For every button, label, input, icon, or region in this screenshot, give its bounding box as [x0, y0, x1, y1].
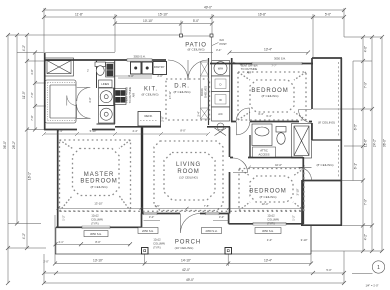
svg-text:3'-4": 3'-4" [196, 111, 200, 116]
wall bath block bottom [44, 129, 115, 131]
bookshelves column [201, 62, 209, 119]
front door arc [181, 214, 201, 234]
svg-text:3'-0": 3'-0" [88, 97, 92, 102]
svg-text:(8' CEILING): (8' CEILING) [173, 90, 190, 94]
svg-text:13'-10": 13'-10" [93, 259, 103, 263]
window master bottom 3050 [82, 226, 110, 229]
wall strip bottom [302, 180, 341, 182]
svg-text:VENT HOOD: VENT HOOD [125, 87, 129, 103]
svg-text:BOOK: BOOK [200, 88, 204, 96]
svg-text:6'-5": 6'-5" [354, 124, 358, 130]
svg-text:4'-2": 4'-2" [22, 233, 26, 239]
svg-text:4'-2": 4'-2" [364, 234, 368, 240]
svg-text:6x6: 6x6 [220, 38, 225, 42]
refrigerator [138, 112, 161, 127]
wall bath middle left [249, 135, 251, 157]
svg-text:3'-4": 3'-4" [216, 48, 221, 52]
porch column right [225, 248, 232, 255]
svg-text:AIR: AIR [132, 93, 136, 98]
porch 3'-0" dims [144, 215, 308, 242]
patio outline [181, 36, 212, 60]
door arc hallway lower [77, 104, 91, 118]
svg-text:PANTRY: PANTRY [154, 65, 165, 69]
wall bedroom2 block front [229, 223, 304, 225]
svg-text:ATTIC: ATTIC [260, 149, 268, 153]
utility washer box [212, 92, 230, 108]
svg-text:7'-9": 7'-9" [364, 82, 368, 88]
svg-text:3'-8": 3'-8" [30, 69, 34, 74]
wall living top [115, 126, 230, 128]
kitchen counter sink [115, 62, 153, 76]
svg-text:SHELVES: SHELVES [203, 86, 207, 98]
vent dryer note [233, 62, 258, 75]
svg-text:D: D [220, 83, 222, 87]
svg-text:28'-2": 28'-2" [12, 141, 16, 149]
linen closet [99, 80, 113, 88]
svg-text:49'-0": 49'-0" [186, 278, 194, 282]
room label PORCH [175, 240, 201, 251]
wall bedroom2 right [302, 157, 304, 224]
svg-text:PORCH: PORCH [175, 240, 201, 246]
svg-text:AIR: AIR [247, 71, 252, 75]
svg-text:3050 S.H.: 3050 S.H. [274, 57, 286, 61]
svg-text:LINEN: LINEN [101, 82, 109, 86]
svg-text:13'-10": 13'-10" [94, 202, 102, 206]
svg-text:(8' CEILING): (8' CEILING) [90, 185, 107, 189]
svg-text:7'-8": 7'-8" [30, 92, 34, 97]
svg-text:8'-0": 8'-0" [180, 129, 185, 133]
window labels porch [84, 231, 108, 237]
svg-text:(10' CEILING): (10' CEILING) [179, 176, 198, 180]
svg-text:(10' CEILING): (10' CEILING) [175, 246, 194, 250]
svg-text:24'-2": 24'-2" [373, 139, 377, 147]
wall oven stack [106, 63, 115, 78]
door arc bedroom2 [233, 158, 248, 173]
patio post right [210, 34, 213, 37]
room label BEDROOM top [251, 64, 288, 119]
svg-text:7'-7": 7'-7" [271, 64, 276, 68]
svg-text:2'-8": 2'-8" [161, 116, 165, 121]
room label D.R. [173, 84, 190, 95]
svg-text:14'-10": 14'-10" [181, 259, 191, 263]
living room ceiling dashed [154, 141, 223, 211]
svg-text:COLUMN: COLUMN [267, 218, 279, 222]
svg-text:TO OUTSIDE: TO OUTSIDE [241, 67, 258, 71]
wall bath/bed1 divider [231, 121, 312, 123]
wall utility left [208, 58, 210, 125]
door arc bath2 [236, 108, 249, 121]
closet rods right strip [338, 62, 340, 177]
wall left exterior [44, 53, 46, 130]
attic access label [253, 147, 276, 157]
svg-text:D.R.: D.R. [174, 84, 190, 90]
svg-text:7'-9": 7'-9" [364, 199, 368, 205]
roofline top-left [44, 52, 115, 54]
dim 10'-0" bedroom2 [247, 166, 305, 170]
svg-text:3'-10": 3'-10" [301, 238, 308, 242]
svg-text:36'-0": 36'-0" [3, 141, 7, 149]
D.R. ceiling dashed [166, 79, 210, 120]
svg-text:10'-10": 10'-10" [143, 19, 153, 23]
svg-text:3050 S.H.: 3050 S.H. [90, 232, 102, 236]
porch column left [142, 248, 149, 255]
door arc master closet [67, 96, 77, 106]
svg-text:4'-1": 4'-1" [58, 240, 63, 244]
patio french door arcs [168, 60, 208, 80]
dimension row top 49'-0" [42, 8, 346, 12]
svg-text:(8' CEILING): (8' CEILING) [141, 93, 158, 97]
svg-text:2050 S.H.: 2050 S.H. [142, 229, 154, 233]
bath2 shower [292, 124, 312, 159]
svg-text:LIVING: LIVING [176, 162, 201, 168]
svg-text:3'-4": 3'-4" [57, 129, 62, 133]
right tick lines [311, 35, 384, 253]
column notes [91, 214, 103, 226]
porch front edge [55, 226, 311, 254]
window bedroom1 top 3050 [252, 62, 302, 65]
kitchen 5'-0" dim [118, 74, 163, 78]
room label LIVING ROOM [154, 162, 209, 208]
svg-text:49'-0": 49'-0" [204, 6, 212, 10]
svg-text:COLUMN: COLUMN [153, 242, 165, 246]
utility AC box [212, 107, 230, 121]
svg-text:(TYP.): (TYP.) [91, 222, 99, 226]
AC louver door [215, 123, 227, 136]
left tick line y=35 extending to patio post [8, 34, 179, 36]
svg-text:W: W [219, 98, 222, 102]
svg-text:4'-2": 4'-2" [22, 45, 26, 51]
door arc bedroom1 [237, 122, 250, 135]
svg-text:3'-10": 3'-10" [296, 189, 300, 196]
svg-text:1: 1 [377, 265, 380, 271]
svg-text:12x12: 12x12 [267, 214, 275, 218]
bath2 vanity [252, 124, 272, 146]
wall bedroom1 left / utility right [231, 58, 233, 122]
master closet cabinet [45, 80, 76, 123]
wall living/bed2 divider [229, 127, 231, 214]
svg-text:11'-8": 11'-8" [75, 13, 83, 17]
room label KIT [141, 87, 158, 97]
svg-text:3'-0": 3'-0" [149, 215, 154, 219]
svg-text:4'-0": 4'-0" [364, 46, 368, 52]
svg-text:10'-0": 10'-0" [275, 163, 282, 167]
dimension row top second: 11'-8", 15'-10", 16'-8", 5'-0" [42, 15, 346, 19]
svg-text:6'-4": 6'-4" [258, 112, 263, 116]
svg-text:5'-0": 5'-0" [326, 268, 331, 272]
wall bedroom1 right [311, 58, 313, 140]
svg-text:BEDROOM: BEDROOM [249, 189, 286, 195]
bath2 toilet [276, 127, 286, 145]
washer circle [99, 88, 115, 106]
svg-text:ROOM: ROOM [177, 169, 199, 175]
svg-text:5'-0": 5'-0" [128, 74, 133, 78]
note 6x6 post [199, 38, 227, 52]
svg-text:A/C: A/C [218, 112, 223, 116]
toilet master bath [95, 62, 106, 75]
wall master block left [57, 129, 59, 227]
svg-text:(8' CEILING): (8' CEILING) [261, 94, 278, 98]
svg-text:13'-4": 13'-4" [262, 202, 269, 206]
bottom dimension row 2'-0" 42'-0" [42, 254, 346, 283]
svg-text:(8' CEILING): (8' CEILING) [318, 121, 335, 125]
wall top bedroom1 section [210, 63, 313, 65]
svg-text:2'-0": 2'-0" [43, 260, 48, 264]
svg-text:16'-1": 16'-1" [28, 172, 32, 180]
wall right bump top [312, 57, 342, 59]
wall master/living divider [141, 127, 143, 214]
bottom dimension row 49'-0" [42, 251, 346, 285]
svg-text:(TYP.): (TYP.) [153, 246, 161, 250]
door arc hallway upper [77, 88, 91, 102]
svg-text:12x12: 12x12 [91, 214, 99, 218]
wall bedroom2 top [230, 157, 303, 159]
wall toilet strip [97, 60, 116, 124]
wall bottom exterior [56, 226, 142, 228]
svg-text:6'-1": 6'-1" [354, 163, 358, 169]
svg-text:3050 S.H.: 3050 S.H. [134, 55, 146, 59]
svg-text:5'-0": 5'-0" [193, 19, 199, 23]
svg-text:ACCESS: ACCESS [258, 153, 269, 157]
master bedroom tray ceiling dashed [60, 140, 131, 211]
wall top-left block [44, 59, 166, 61]
svg-text:7'-8": 7'-8" [30, 115, 34, 120]
wall strip divider [312, 139, 341, 141]
door arc closet bottom [299, 167, 312, 180]
svg-text:3050 S.H.: 3050 S.H. [262, 229, 274, 233]
left tick lines [6, 33, 57, 285]
dryer circle [99, 106, 115, 124]
top dimension extension lines [44, 8, 344, 57]
utility dryer box [212, 76, 230, 92]
wall porch recessed front [142, 213, 229, 215]
svg-text:12x12: 12x12 [153, 238, 161, 242]
svg-text:BEDROOM: BEDROOM [80, 179, 117, 185]
svg-text:2'-0": 2'-0" [157, 74, 162, 78]
svg-text:42'-0": 42'-0" [182, 268, 190, 272]
stove [114, 89, 127, 105]
wall porch recess sides [142, 214, 229, 228]
bedroom2 tray ceiling dashed [239, 169, 304, 211]
bedroom1 tray ceiling dashed [238, 72, 306, 120]
svg-text:12'-6": 12'-6" [364, 139, 368, 147]
door arc closet top [299, 110, 312, 123]
svg-text:15'-10": 15'-10" [158, 13, 168, 17]
wall right wing left [301, 180, 303, 226]
svg-text:36'-0": 36'-0" [383, 139, 387, 147]
svg-text:16'-8": 16'-8" [258, 13, 266, 17]
svg-text:REFR.: REFR. [144, 114, 152, 118]
svg-text:4'-4": 4'-4" [132, 129, 137, 133]
svg-text:(8' CEILING): (8' CEILING) [259, 195, 276, 199]
svg-text:(8' CEILING): (8' CEILING) [316, 163, 333, 167]
window living bottom right 2050 [206, 212, 220, 215]
svg-text:4'-0": 4'-0" [267, 238, 272, 242]
svg-text:5'-0": 5'-0" [325, 13, 331, 17]
svg-text:(8' CEILING): (8' CEILING) [187, 48, 204, 52]
pantry [153, 62, 167, 75]
svg-text:(TYP.): (TYP.) [267, 222, 275, 226]
ceiling dashed line above porch wall [60, 210, 302, 212]
window bedroom2 bottom 3050 [253, 223, 286, 226]
svg-text:6'-4": 6'-4" [266, 114, 271, 118]
svg-text:7'-5": 7'-5" [154, 204, 159, 208]
svg-text:POST: POST [220, 42, 228, 46]
svg-text:1/4" = 1'-0": 1/4" = 1'-0" [365, 284, 378, 288]
window kitchen top 3050 [127, 59, 152, 62]
svg-text:W/H: W/H [218, 67, 223, 71]
svg-text:VENT DRYER: VENT DRYER [240, 64, 257, 68]
right dimension chain lines [353, 37, 382, 251]
svg-text:7'-5": 7'-5" [204, 204, 209, 208]
vent hood note [125, 87, 136, 104]
svg-text:3'-0": 3'-0" [219, 215, 224, 219]
svg-text:17'-11": 17'-11" [168, 91, 172, 99]
detail marker circle 1 [352, 261, 385, 274]
dim 13'-4" bedroom1 window [228, 48, 311, 61]
svg-text:11'-5": 11'-5" [22, 91, 26, 99]
svg-text:13'-4": 13'-4" [264, 48, 272, 52]
room label PATIO [185, 43, 207, 52]
room label BEDROOM bottom [249, 163, 286, 206]
svg-text:1'-2": 1'-2" [62, 215, 66, 220]
wall right wing bottom [301, 224, 342, 226]
bottom small dimension row 4'-1" 8'-0" [54, 242, 133, 246]
svg-text:MASTER: MASTER [84, 172, 114, 178]
shower master (X box) [45, 58, 74, 76]
svg-text:1'-2": 1'-2" [292, 215, 296, 220]
svg-text:COLUMN: COLUMN [91, 218, 103, 222]
interior bottom dims row [42, 129, 210, 137]
wall right exterior [340, 58, 342, 225]
window living bottom left 2050 [144, 212, 158, 215]
svg-text:TO OUTSIDE: TO OUTSIDE [128, 87, 132, 104]
dim line living front 7'-5" pair [57, 207, 305, 210]
svg-text:2050 S.H.: 2050 S.H. [206, 229, 218, 233]
svg-text:5'-10": 5'-10" [90, 129, 97, 133]
patio post left [180, 34, 183, 37]
bottom dimension row 13'-10" 14'-10" 13'-4" [53, 215, 313, 266]
utility water heater [212, 61, 230, 77]
svg-text:8'-0": 8'-0" [95, 240, 100, 244]
svg-text:13'-4": 13'-4" [264, 259, 272, 263]
dimension row top third: 10'-10", 5'-0" [113, 22, 214, 26]
room label MASTER BEDROOM [80, 172, 117, 206]
left dimension chain lines [8, 35, 35, 283]
